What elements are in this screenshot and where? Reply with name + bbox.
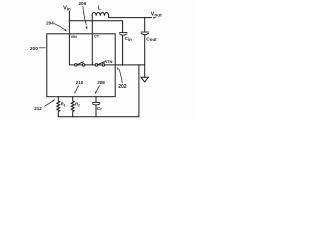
svg-text:Vin: Vin [63, 6, 71, 12]
svg-text:Cin: Cin [125, 36, 132, 42]
wire L to Vout [109, 16, 152, 18]
resistor R2 [71, 97, 74, 117]
wire Vin to Cin [69, 20, 122, 22]
capacitor Cin lead top [122, 21, 124, 33]
leader arrow 202 [119, 69, 122, 83]
leader arrow 210 [76, 85, 79, 91]
svg-text:206: 206 [79, 1, 87, 6]
leader arrow 206 [83, 6, 86, 26]
svg-text:Vout: Vout [151, 11, 162, 17]
capacitor Cout lead top [144, 18, 146, 32]
svg-text:VIN: VIN [71, 35, 77, 39]
module box 200 [47, 34, 115, 97]
svg-text:R2: R2 [75, 102, 80, 108]
leader arrow 204 [54, 24, 64, 30]
leader arrow 208 [96, 85, 100, 92]
switch S2 contact a [95, 64, 98, 67]
ground [141, 77, 148, 82]
wire SW node / CT pin [91, 16, 93, 65]
svg-text:202: 202 [118, 84, 127, 90]
svg-text:212: 212 [34, 106, 42, 111]
wire RTN to bottom rail [138, 65, 140, 117]
inductor L [92, 13, 109, 16]
svg-text:208: 208 [97, 80, 105, 85]
capacitor Cf lead bottom [95, 105, 97, 117]
bottom rail [58, 116, 139, 118]
junction dot Vout node [144, 17, 145, 18]
junction dot CT [92, 64, 93, 65]
junction dot Vin wire [69, 20, 70, 21]
leader arrow 212 [44, 101, 53, 107]
wire switch / RTN [69, 64, 144, 66]
resistor R1 [57, 97, 60, 117]
svg-text:R1: R1 [61, 102, 66, 108]
svg-text:Cout: Cout [146, 36, 157, 42]
svg-text:RTN: RTN [104, 59, 112, 64]
svg-text:210: 210 [76, 80, 84, 85]
svg-text:Cf: Cf [97, 106, 102, 112]
svg-text:200: 200 [30, 46, 38, 52]
capacitor Cout lead bottom [144, 35, 146, 77]
node Vin terminal [68, 11, 70, 65]
svg-text:204: 204 [46, 20, 54, 25]
svg-text:CT: CT [94, 35, 100, 39]
svg-text:L: L [98, 6, 101, 12]
junction dot Cin RTN [122, 64, 123, 65]
switch S1 contact b [82, 64, 85, 67]
leader line 200 [39, 47, 46, 49]
capacitor Cin plates [120, 32, 128, 34]
capacitor Cin lead bottom [122, 35, 124, 65]
switch S1 blade [77, 62, 83, 65]
switch S2 blade [98, 62, 104, 65]
capacitor Cf plates [93, 101, 100, 103]
capacitor Cout plates [141, 31, 149, 33]
switch S1 contact a [75, 64, 78, 67]
junction dot rail riser [138, 64, 139, 65]
capacitor Cf lead top [95, 97, 97, 102]
switch S2 contact b [102, 64, 105, 67]
Vout arrow head [153, 17, 156, 19]
